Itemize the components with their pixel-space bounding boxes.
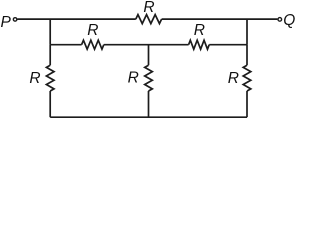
- resistor R2 (second rail left): [82, 40, 104, 49]
- wire: top resistor to Q terminal: [162, 18, 278, 20]
- resistor R5 (middle vertical): [145, 65, 153, 91]
- wire: left vertical, resistor to bottom rail: [49, 91, 51, 117]
- resistor R4 (left vertical): [46, 65, 54, 91]
- wire: left vertical, second rail to left resistor: [49, 45, 51, 65]
- svg-text:R: R: [194, 22, 205, 39]
- wire: middle vertical, resistor to bottom rail: [148, 91, 150, 117]
- wire: right vertical, second rail to right resistor: [246, 45, 248, 65]
- svg-text:R: R: [143, 0, 154, 16]
- resistor R1 (top rail): [136, 15, 162, 24]
- node Q terminal: [278, 18, 282, 22]
- wire: right vertical, resistor to bottom rail: [246, 91, 248, 117]
- wire: second rail, right segment: [209, 44, 247, 46]
- resistor R3 (second rail right): [189, 40, 210, 49]
- wire: second rail, middle segment: [104, 44, 189, 46]
- resistor R6 (right vertical): [243, 65, 251, 91]
- svg-text:P: P: [1, 14, 12, 31]
- wire: bottom rail: [50, 116, 247, 118]
- svg-text:Q: Q: [283, 12, 295, 29]
- svg-text:R: R: [87, 22, 98, 39]
- node P terminal: [13, 18, 17, 22]
- svg-text:R: R: [29, 70, 40, 87]
- wire: middle vertical, second rail to middle resistor: [148, 45, 150, 65]
- wire: right vertical drop, top rail to second rail: [246, 19, 248, 45]
- svg-text:R: R: [228, 70, 239, 87]
- wire: P terminal to top resistor: [18, 18, 136, 20]
- wire: left vertical drop, top rail to second rail: [49, 19, 51, 45]
- svg-text:R: R: [128, 70, 139, 87]
- wire: second rail, left segment: [50, 44, 81, 46]
